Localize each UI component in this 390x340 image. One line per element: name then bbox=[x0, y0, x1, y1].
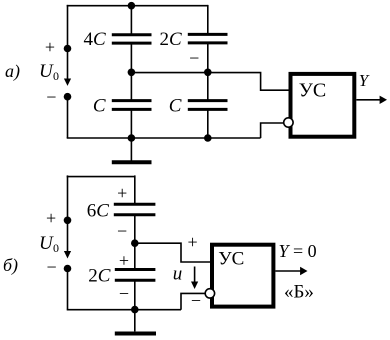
svg-text:0: 0 bbox=[53, 241, 59, 255]
node middle rail (a) bbox=[128, 69, 136, 77]
wire bottom rail to amp inverting input (б) bbox=[181, 293, 205, 309]
inversion bubble (б) bbox=[205, 289, 214, 298]
ground (б) bbox=[115, 309, 156, 333]
ground (a) bbox=[112, 138, 152, 162]
svg-text:2C: 2C bbox=[160, 29, 183, 50]
svg-text:2C: 2C bbox=[88, 266, 111, 287]
svg-text:УС: УС bbox=[218, 248, 244, 269]
node ground junction (б) bbox=[131, 306, 139, 314]
node − terminal (a) bbox=[64, 93, 72, 101]
wire 4C top lead bbox=[130, 6, 132, 34]
source arrow U0 (a) bbox=[64, 49, 71, 86]
capacitor C right bbox=[188, 101, 228, 110]
capacitor C left bbox=[112, 101, 152, 110]
capacitor 2C (б) bbox=[115, 270, 156, 281]
svg-text:−: − bbox=[117, 221, 127, 241]
svg-text:Y: Y bbox=[359, 71, 370, 90]
svg-text:б): б) bbox=[3, 255, 18, 276]
node + terminal (б) bbox=[64, 217, 72, 225]
svg-text:6C: 6C bbox=[87, 201, 110, 222]
svg-text:+: + bbox=[188, 232, 198, 252]
wire bottom rail (a) bbox=[67, 137, 261, 139]
svg-text:+: + bbox=[119, 251, 129, 271]
svg-text:−: − bbox=[189, 48, 199, 68]
node − terminal (б) bbox=[64, 265, 72, 273]
wire top rail (б) bbox=[67, 176, 135, 178]
wire 6C bottom lead to 2C top bbox=[134, 215, 136, 270]
wire to amp noninverting input (б) bbox=[135, 243, 211, 262]
wire bottom rail to amp inverting input (a) bbox=[261, 123, 284, 138]
svg-text:−: − bbox=[191, 291, 201, 311]
wire left rail top segment (a) bbox=[67, 5, 69, 49]
op-amp box УС U2 (б) bbox=[212, 245, 273, 307]
node C right bottom (a) bbox=[204, 134, 212, 142]
output arrow (a) bbox=[356, 96, 387, 104]
capacitor 2C bbox=[188, 34, 228, 43]
wire middle rail to amp noninverting input (a) bbox=[131, 73, 289, 91]
svg-text:u: u bbox=[173, 264, 183, 285]
inversion bubble (a) bbox=[284, 118, 293, 127]
svg-text:УС: УС bbox=[299, 79, 327, 101]
node top rail (a) bbox=[128, 2, 136, 10]
output arrow (б) bbox=[275, 267, 307, 275]
wire 2C bottom lead bbox=[134, 280, 136, 309]
wire top rail (a) bbox=[67, 5, 208, 7]
svg-text:Y = 0: Y = 0 bbox=[279, 241, 317, 261]
wire left rail bottom segment (б) bbox=[67, 269, 69, 310]
svg-text:а): а) bbox=[5, 61, 20, 82]
svg-text:U: U bbox=[39, 61, 54, 82]
svg-text:C: C bbox=[93, 95, 106, 116]
svg-text:+: + bbox=[46, 208, 56, 228]
wire C left bottom lead bbox=[130, 109, 132, 138]
svg-text:«Б»: «Б» bbox=[284, 282, 314, 303]
wire 4C bottom lead to middle node bbox=[130, 43, 132, 100]
wire 6C top lead bbox=[134, 175, 136, 205]
wire left rail bottom segment (a) bbox=[67, 97, 69, 138]
wire 2C bottom lead to node bbox=[207, 43, 209, 100]
svg-text:0: 0 bbox=[53, 69, 59, 83]
svg-text:+: + bbox=[45, 37, 55, 57]
capacitor 6C bbox=[114, 204, 156, 215]
source arrow U0 (б) bbox=[64, 220, 71, 258]
wire C right bottom lead bbox=[207, 109, 209, 138]
svg-text:−: − bbox=[46, 87, 56, 107]
capacitor 4C bbox=[112, 35, 152, 43]
voltage source label U0 (б) bbox=[39, 233, 59, 255]
node middle (б) bbox=[131, 239, 139, 247]
op-amp box УС U1 (a) bbox=[291, 74, 355, 137]
voltage source label U0 (a) bbox=[39, 61, 59, 83]
node 2C bottom (a) bbox=[204, 69, 212, 77]
node + terminal (a) bbox=[64, 45, 72, 53]
svg-text:U: U bbox=[39, 233, 54, 254]
node ground junction (a) bbox=[128, 134, 136, 142]
svg-text:−: − bbox=[119, 284, 129, 304]
wire bottom rail (б) bbox=[67, 309, 181, 311]
svg-text:C: C bbox=[169, 95, 182, 116]
wire 2C branch top corner lead bbox=[207, 5, 209, 34]
voltage arrow u bbox=[191, 267, 198, 290]
svg-text:4C: 4C bbox=[84, 29, 107, 50]
svg-text:−: − bbox=[47, 257, 57, 277]
svg-text:+: + bbox=[117, 183, 127, 203]
wire left rail top segment (б) bbox=[67, 175, 69, 220]
